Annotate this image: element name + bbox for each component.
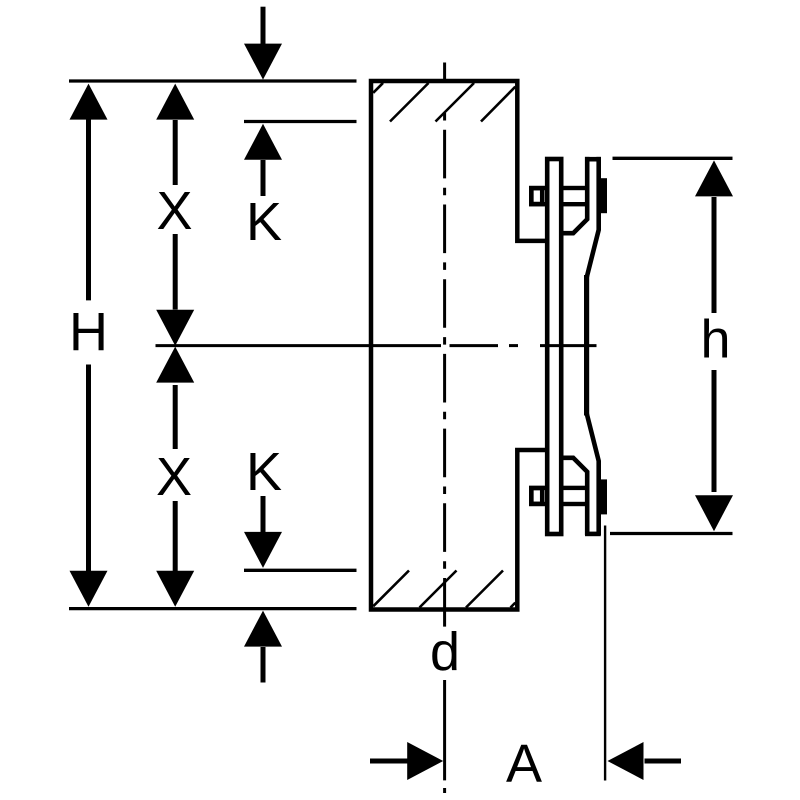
svg-text:K: K <box>246 442 282 502</box>
svg-text:A: A <box>506 734 542 794</box>
svg-text:K: K <box>246 192 282 252</box>
svg-text:X: X <box>156 181 192 241</box>
svg-text:H: H <box>69 302 108 362</box>
svg-text:X: X <box>156 447 192 507</box>
svg-text:d: d <box>430 622 460 682</box>
svg-text:h: h <box>700 310 730 370</box>
